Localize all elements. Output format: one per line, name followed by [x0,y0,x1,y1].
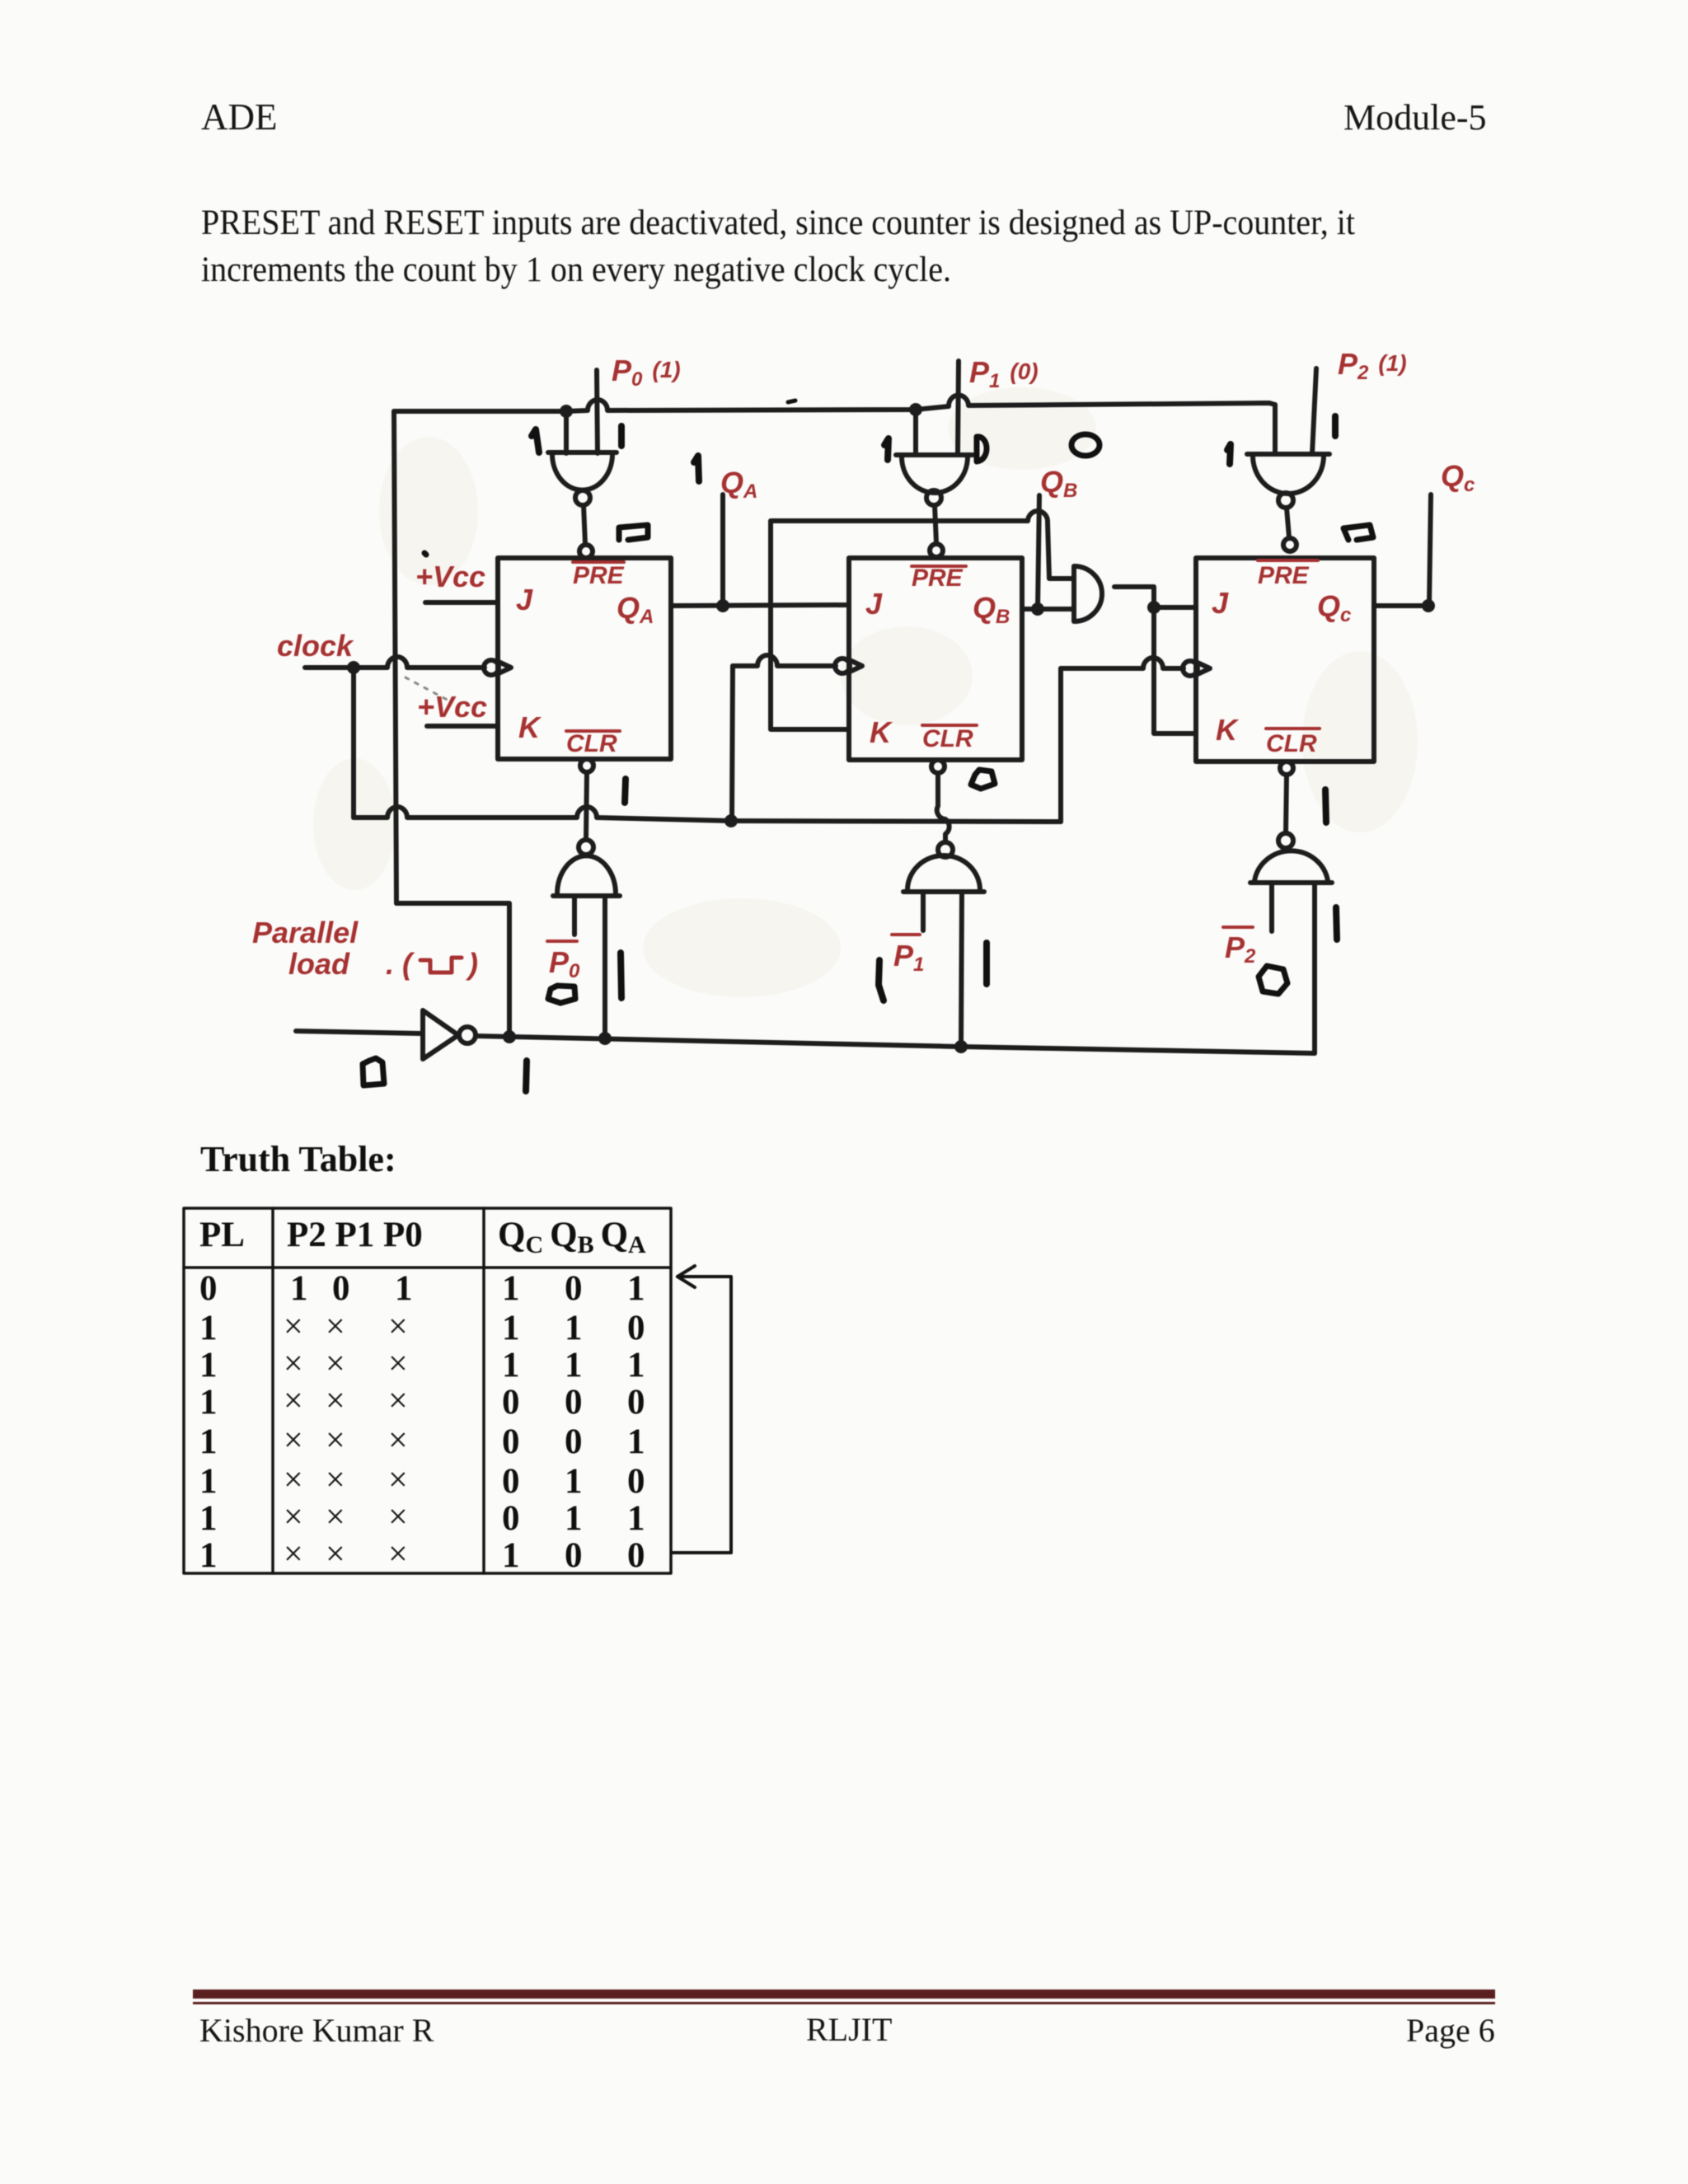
svg-text:1: 1 [199,1422,218,1461]
svg-text:load: load [288,947,350,981]
pin U3 CLR bubble [1280,762,1293,775]
NAND gate G4 (clear U1, bubble top / inputs bottom) [553,855,620,896]
stray mark logic-1 right of G5 [983,943,990,984]
wire bottom rail riser to FF3 clock [1058,668,1063,822]
svg-text:1: 1 [199,1383,218,1422]
svg-text:0: 0 [565,1269,583,1308]
wire NAND1 left input stub [564,411,569,453]
NAND gate G3 (load P2) [1247,454,1329,494]
svg-text:1: 1 [502,1269,520,1308]
svg-text:PRESET and RESET inputs are de: PRESET and RESET inputs are deactivated,… [201,204,1355,242]
svg-text:1: 1 [565,1462,583,1501]
svg-text:P2 P1 P0: P2 P1 P0 [287,1216,423,1254]
svg-text:1: 1 [627,1269,645,1308]
svg-text:P1(0): P1(0) [969,355,1039,392]
stray mark logic-1 right of G1 [618,426,625,446]
svg-text:RLJIT: RLJIT [806,2011,892,2048]
wire G4 right input to load line [603,896,607,1038]
svg-text:0: 0 [565,1383,583,1422]
NAND gate G1 (load P0, inputs top / bubble bottom) [548,452,617,490]
svg-text:K: K [518,710,542,744]
node QB junction [1031,602,1044,616]
wire QA label drop [720,494,725,606]
wire clock to U3 with hop over AND output drop [1061,658,1184,668]
svg-text:0: 0 [627,1309,645,1347]
svg-text:J: J [1212,586,1229,620]
node bottom rail to FF2 clock riser [724,814,738,827]
svg-text:0: 0 [502,1383,520,1422]
stray mark scribble below P0bar [548,986,575,1003]
svg-text:1: 1 [199,1462,218,1501]
flip-flop U2 body [849,558,1022,760]
svg-text:PL: PL [199,1216,245,1254]
svg-text:×: × [388,1422,408,1460]
pin U1 clock bubble [484,660,499,675]
wire G2 output to FF2 PRE [935,505,936,543]
stray mark logic-1 left of G2 [884,438,889,460]
wire QA up-and-over to AND gate and U2 K [771,511,1074,729]
svg-text:1: 1 [199,1536,218,1575]
feedback arrow from last row to first row [673,1277,731,1553]
svg-text:QA: QA [720,466,757,503]
svg-text:P0(1): P0(1) [612,354,681,391]
svg-text:PRE: PRE [573,562,625,589]
svg-text:QB: QB [1040,465,1077,502]
stray mark logic-1 left of G3 [1227,444,1231,464]
svg-text:0: 0 [627,1536,645,1575]
node QA junction to label [716,599,729,612]
svg-text:×: × [284,1461,303,1499]
wire PL rail elbow to inverter output node [396,903,509,1037]
svg-text:×: × [284,1345,303,1383]
svg-text:×: × [326,1345,345,1383]
svg-text:J: J [865,587,883,621]
svg-text:1: 1 [627,1499,645,1538]
node load line to PL rail riser [503,1030,516,1043]
wire clock input line with junction and hop over left rail [305,657,485,668]
wire parallel load input to inverter [296,1031,423,1033]
pin FF3 PRE bubble [1283,538,1296,551]
svg-text:0: 0 [332,1269,350,1308]
truth table column line 1 [271,1208,274,1573]
stray mark scribble below inverter [363,1058,384,1085]
svg-text:clock: clock [277,629,354,663]
wire clock to U2 with hop over QA drop [733,655,836,666]
node AND output junction [1147,601,1160,614]
svg-text:0: 0 [502,1499,520,1538]
svg-text:1: 1 [565,1309,583,1347]
stray mark logic-1 right of U1 CLR line [625,779,626,803]
AND gate U4 [1074,566,1102,621]
stray mark dash on rail [788,401,795,402]
svg-text:1: 1 [627,1422,645,1461]
svg-text:×: × [326,1308,345,1346]
wire +Vcc to U1 J input [425,600,498,605]
svg-text:×: × [326,1382,345,1420]
svg-text:0: 0 [502,1422,520,1461]
svg-text:1: 1 [502,1536,520,1575]
svg-text:×: × [326,1422,345,1460]
wire AND output to U3 J and K [1114,587,1196,733]
pin G4 output bubble [579,840,593,855]
wire bottom clock rail with hops over rail and CLR1 line [354,807,1061,822]
svg-text:1: 1 [199,1309,218,1347]
svg-text:0: 0 [502,1462,520,1501]
svg-text:+Vcc: +Vcc [415,560,485,593]
inverter U5 triangle [423,1010,458,1059]
footer rule thin line [193,2002,1495,2004]
svg-text:Kishore Kumar R: Kishore Kumar R [199,2012,434,2049]
wire G3 output to FF3 PRE [1287,508,1289,537]
svg-text:P2(1): P2(1) [1338,347,1407,384]
svg-text:×: × [388,1345,408,1383]
wire G1 output to FF1 PRE [584,505,585,544]
svg-text:1: 1 [502,1346,520,1385]
svg-text:1: 1 [290,1269,308,1308]
svg-text:1: 1 [502,1309,520,1347]
svg-text:1: 1 [565,1346,583,1385]
stray mark small box right of G1 output [619,525,648,540]
svg-text:P2: P2 [1225,930,1256,968]
svg-text:K: K [1216,713,1240,747]
NAND gate G5 (clear U2) [903,855,984,892]
svg-text:0: 0 [627,1383,645,1422]
pin U2 clock bubble [835,658,850,673]
pin FF2 PRE bubble [930,544,943,557]
stray mark scribble below P2bar [1259,966,1287,994]
svg-text:1: 1 [565,1499,583,1538]
svg-text:×: × [284,1422,303,1460]
wire QA output row U1 to U2 J [671,605,849,606]
svg-text:J: J [516,583,533,616]
NAND gate G6 (clear U3) [1250,851,1332,883]
svg-text:×: × [284,1308,303,1346]
node QC junction [1422,599,1435,612]
svg-text:1: 1 [199,1499,218,1538]
svg-text:Module-5: Module-5 [1343,97,1487,138]
svg-text:QB: QB [973,591,1010,628]
wire QC label rise [1429,494,1431,606]
svg-text:K: K [870,715,893,749]
stray mark D shape right of G2 [977,437,987,462]
svg-text:×: × [388,1498,408,1536]
wire P1 input vertical [958,361,959,454]
svg-text:×: × [284,1498,303,1536]
stray mark dot near U1 PRE [424,553,426,555]
svg-text:PRE: PRE [1258,562,1310,589]
pin U3 clock bubble [1183,661,1198,676]
truth table outer border [184,1208,671,1573]
svg-text:×: × [326,1461,345,1499]
stray mark logic-1 left of QA label [694,456,699,481]
wire G6 right input riser from load line [1312,883,1317,1053]
flip-flop U3 body [1196,558,1374,762]
wire P2 input vertical [1312,368,1316,454]
svg-text:×: × [388,1308,408,1346]
svg-text:0: 0 [199,1269,218,1308]
pin U2 CLR bubble [931,760,945,773]
svg-text:Qc: Qc [1317,589,1351,626]
svg-text:×: × [284,1535,303,1573]
svg-text:1: 1 [199,1346,218,1385]
stray mark logic-1 right of U3 CLR line [1325,790,1326,823]
svg-text:×: × [388,1535,408,1573]
svg-text:P1: P1 [893,939,924,976]
wire parallel load distribution line [476,1036,1315,1053]
truth table column line 2 [482,1208,485,1573]
svg-text:increments the count by 1 on e: increments the count by 1 on every negat… [201,251,951,289]
wire U1 CLR to G4 [586,772,587,839]
svg-text:ADE: ADE [201,96,277,138]
pin G6 output bubble [1278,833,1293,848]
stray mark small box right of G3 output [1343,525,1373,540]
footer rule thick bar [193,1990,1495,1999]
svg-text:Truth Table:: Truth Table: [200,1139,396,1179]
svg-text:): ) [465,947,478,981]
stray pencil dashes near U1 clock [406,677,452,702]
wire +Vcc to U1 K input [427,724,498,729]
svg-text:Qc: Qc [1441,459,1475,496]
wire U3 CLR to G6 [1286,775,1287,833]
node load line to G4 [598,1032,612,1045]
pin U5 output bubble [459,1027,476,1043]
stray mark scribble right of U2 CLR [971,770,995,789]
node load line to G5 [954,1040,968,1053]
svg-text:CLR: CLR [566,730,617,757]
svg-text:1: 1 [627,1346,645,1385]
stray mark oval above QB [1071,434,1100,456]
stray mark logic-1 right of G6 [1336,907,1337,940]
svg-text:CLR: CLR [1266,730,1317,757]
svg-text:0: 0 [627,1462,645,1501]
svg-text:0: 0 [565,1536,583,1575]
svg-text:QCQBQA: QCQBQA [498,1216,646,1258]
wire left PL rail vertical [394,411,396,903]
wire G5 left input stub P1bar [921,892,926,930]
wire FF2 clock riser [732,666,733,821]
wire G5 right input to load line [961,892,962,1047]
svg-text:CLR: CLR [922,725,973,752]
svg-text:×: × [388,1382,408,1420]
svg-text:+Vcc: +Vcc [417,690,487,724]
stray mark logic-1 right of G4 [621,953,621,998]
NAND gate G2 (load P1) [896,455,973,493]
svg-text:1: 1 [395,1269,413,1308]
wire QB label drop [1038,495,1039,609]
wire U2 CLR to G5 with jog over bottom rail [937,773,949,842]
flip-flop U1 body [498,558,671,759]
svg-text:Parallel: Parallel [252,916,359,949]
pin U1 CLR bubble [580,759,593,772]
wire QB output row U2 to AND input [1022,607,1074,612]
svg-text:×: × [388,1461,408,1499]
node: rail to NAND2 left input junction [909,403,922,416]
pin G5 output bubble [938,842,953,857]
wire QC output row U3 [1374,603,1428,608]
faint scan smudges [313,387,1418,997]
svg-text:P0: P0 [549,945,580,982]
svg-text:PRE: PRE [912,565,964,592]
stray mark logic-1 left of P1bar [879,960,884,1001]
svg-text:×: × [326,1535,345,1573]
svg-text:0: 0 [565,1422,583,1461]
wire NAND2 left input stub [913,410,918,455]
svg-text:×: × [326,1498,345,1536]
svg-text:Page 6: Page 6 [1406,2012,1495,2049]
truth table header line [184,1266,671,1269]
stray mark logic-1 left of G1 [532,429,539,452]
wire clock drop to bottom rail [351,668,356,818]
wire P0 input vertical [597,370,598,453]
wire top PL rail with hops over P0 and P1 lines [394,396,1275,454]
node clock junction [347,661,360,674]
svg-text:×: × [284,1382,303,1420]
wire G6 left input stub P2bar [1269,883,1274,931]
svg-text:QA: QA [617,591,654,628]
stray mark logic-1 right of inverter [526,1061,527,1091]
wire G4 left input stub P0bar [572,896,577,935]
stray mark logic-1 right of G3 [1332,416,1339,436]
node: rail to NAND1 left input junction [560,405,573,418]
pin FF1 PRE bubble [579,545,593,558]
svg-text:. (: . ( [386,947,415,981]
